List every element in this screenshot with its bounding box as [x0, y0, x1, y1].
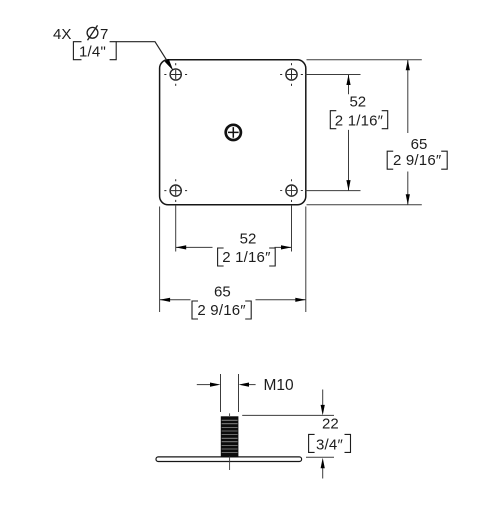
hole top-right: [280, 63, 303, 86]
bracket [2 1/16"] (bottom): [218, 248, 276, 266]
svg-text:65: 65: [214, 283, 231, 300]
threaded stud M10: [221, 416, 239, 457]
extension line from plate top edge (right): [307, 59, 422, 61]
extension line from hole bottom-right (down): [291, 205, 293, 252]
M10 extension lines: [221, 374, 239, 412]
label 4X dia7 [1/4"]: [53, 25, 116, 60]
extension line from plate right edge (down): [305, 207, 307, 313]
svg-text:7: 7: [100, 26, 108, 43]
extension line from stud top (right): [242, 414, 334, 416]
plate outline (top view): [160, 60, 306, 205]
dimension line 52 vertical: [346, 75, 350, 191]
dimension line 52 horizontal: [176, 245, 292, 249]
stud centerline: [229, 413, 231, 470]
extension line from hole bottom-left (down): [175, 205, 177, 252]
svg-text:2 9/16″: 2 9/16″: [197, 302, 246, 319]
side-view plate bar: [156, 457, 302, 462]
extension line from plate left edge (down): [159, 207, 161, 313]
bracket [2 9/16"] (bottom): [192, 301, 251, 319]
svg-text:M10: M10: [264, 377, 295, 394]
dimension line 65 horizontal: [160, 298, 306, 302]
svg-text:52: 52: [240, 231, 257, 248]
svg-text:2 1/16″: 2 1/16″: [222, 249, 271, 266]
extension line from top holes (right): [305, 74, 360, 76]
hole bottom-right: [280, 179, 303, 202]
svg-text:52: 52: [349, 94, 366, 111]
extension line from plate top surface (right, side view): [306, 456, 334, 458]
bracket [2 1/16"] (right): [330, 111, 387, 130]
bracket [3/4"]: [309, 434, 351, 453]
svg-text:22: 22: [322, 415, 339, 432]
bracket [2 9/16"] (right): [387, 151, 447, 169]
hole bottom-left: [164, 179, 187, 202]
dimension 22 vertical arrows: [321, 390, 325, 479]
svg-text:1/4": 1/4": [79, 43, 106, 60]
leader line to hole top-left: [116, 42, 173, 70]
svg-text:2 1/16″: 2 1/16″: [335, 112, 384, 129]
dimension line 65 vertical: [406, 60, 410, 205]
svg-text:65: 65: [411, 136, 428, 153]
hole top-left: [164, 63, 187, 86]
svg-text:3/4″: 3/4″: [316, 436, 343, 453]
extension line from bottom holes (right): [305, 190, 360, 192]
M10 dimension arrows: [197, 383, 256, 387]
svg-text:4X: 4X: [53, 26, 71, 43]
center hole: [226, 125, 241, 140]
svg-text:2 9/16″: 2 9/16″: [393, 152, 442, 169]
extension line from plate bottom edge (right): [307, 204, 422, 206]
